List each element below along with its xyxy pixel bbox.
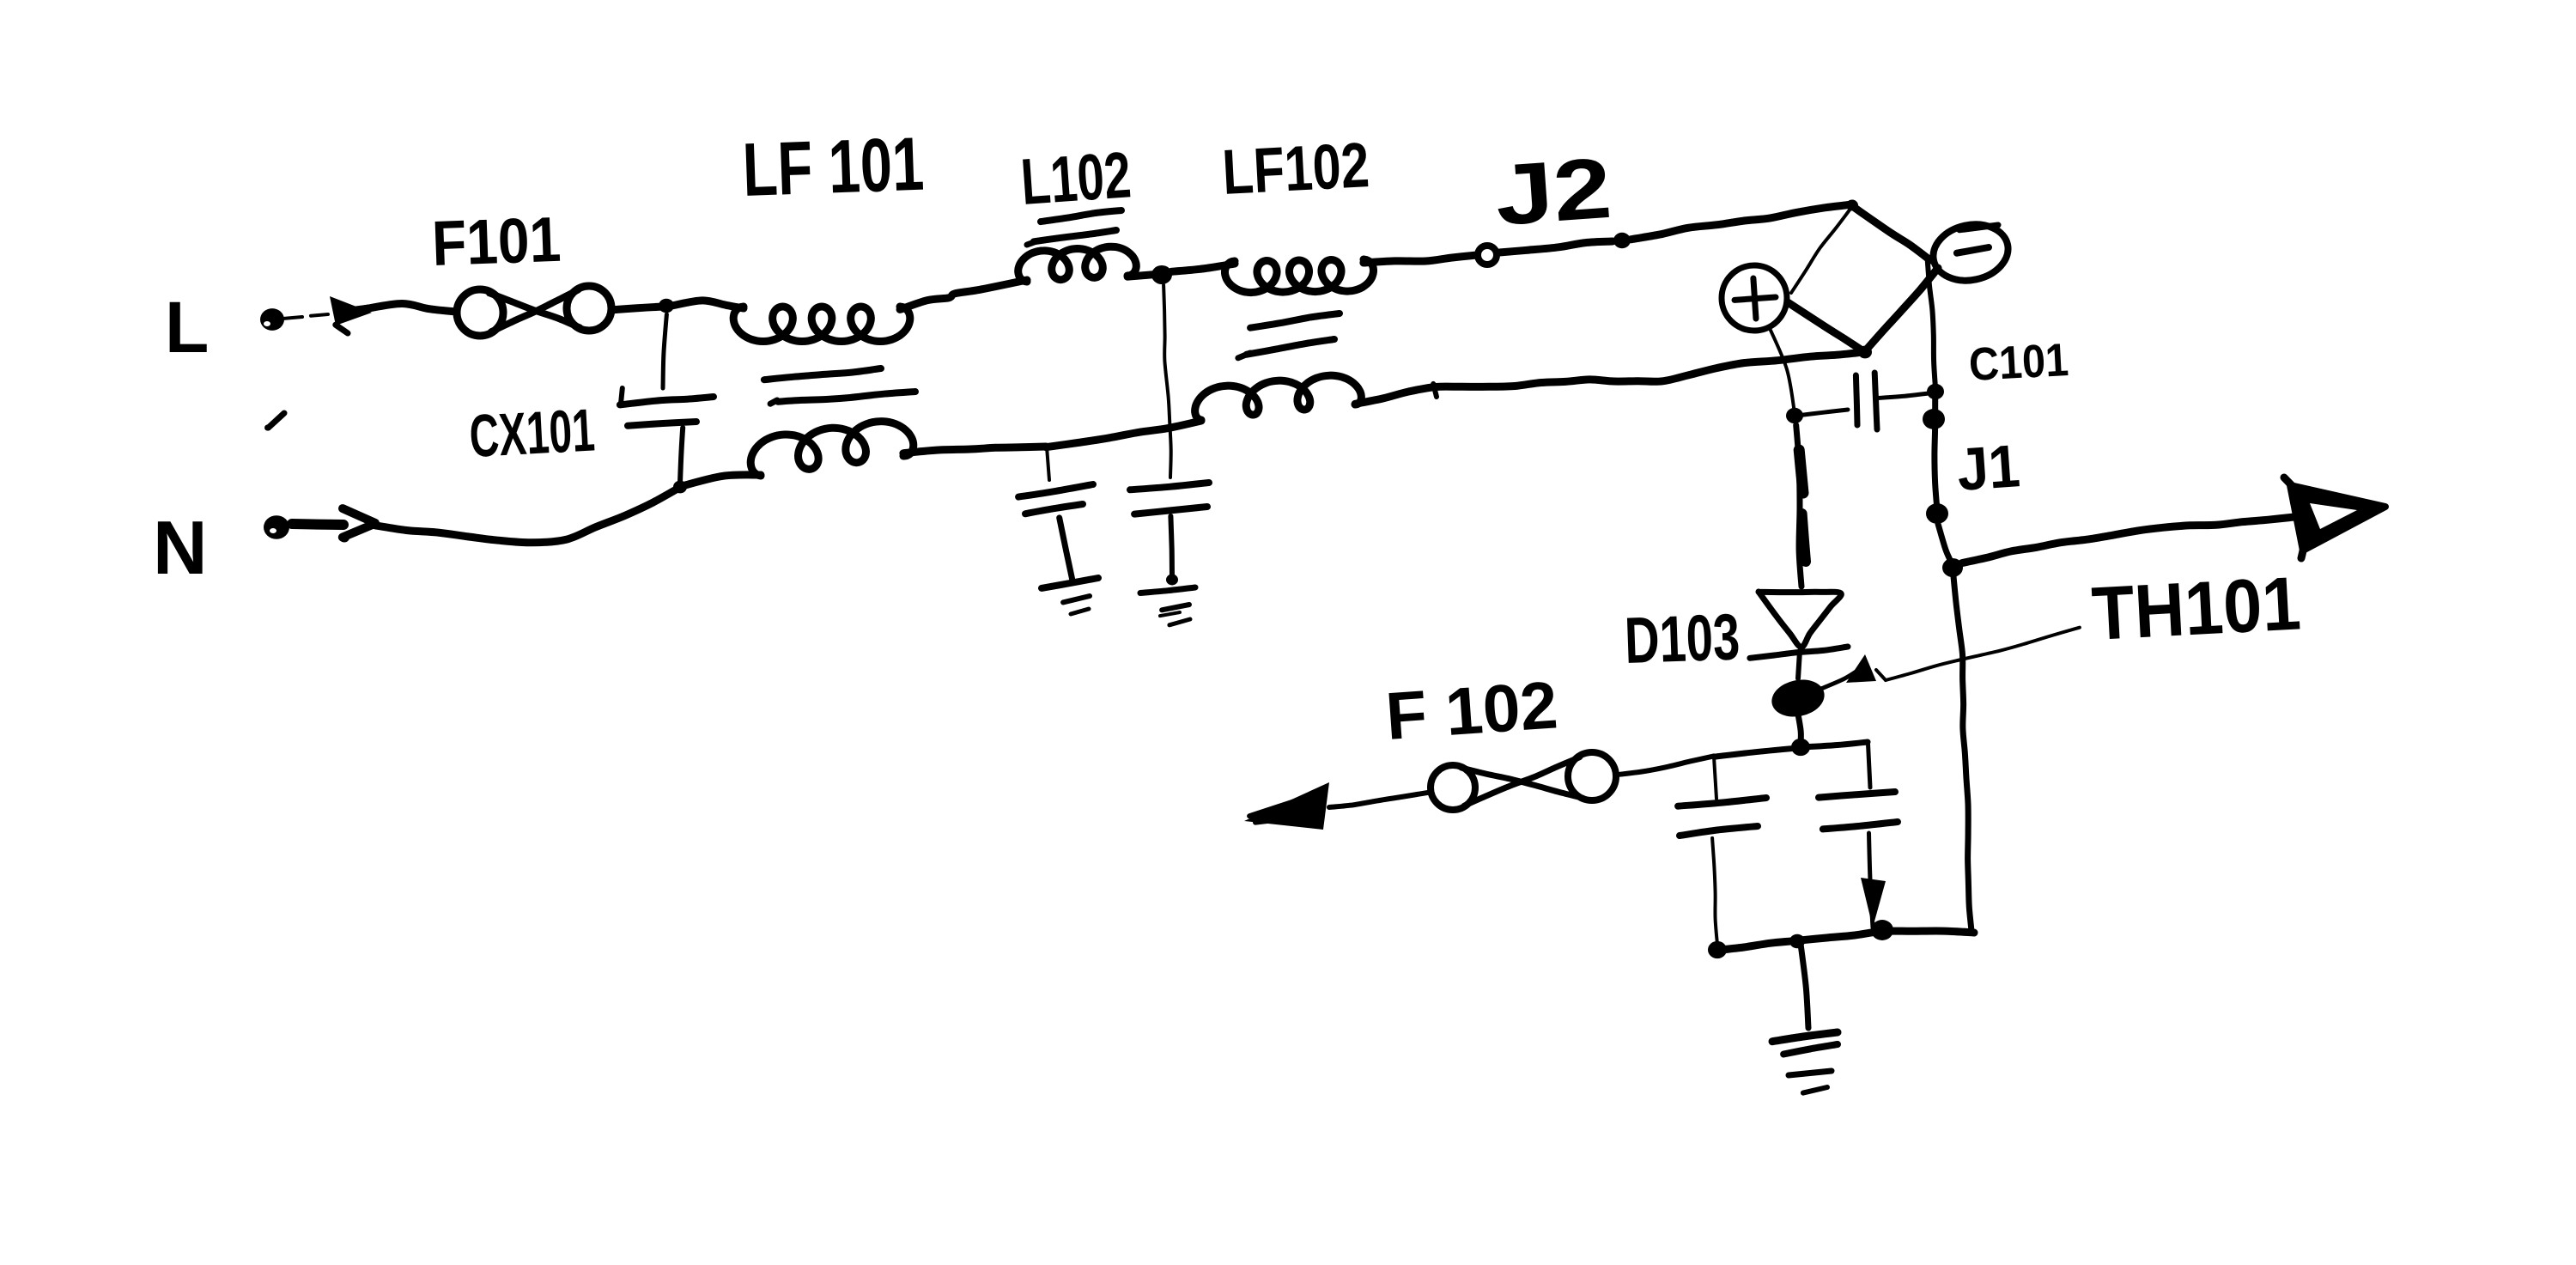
svg-text:F 102: F 102 (1383, 666, 1560, 754)
svg-text:LF 101: LF 101 (741, 121, 925, 212)
svg-text:N: N (153, 505, 208, 590)
svg-text:J2: J2 (1492, 140, 1614, 244)
svg-text:LF102: LF102 (1220, 129, 1370, 208)
svg-text:L: L (165, 287, 209, 368)
svg-text:J1: J1 (1955, 432, 2022, 503)
svg-text:C101: C101 (1967, 334, 2069, 391)
svg-text:L102: L102 (1018, 138, 1133, 219)
svg-text:CX101: CX101 (468, 396, 597, 470)
svg-text:TH101: TH101 (2090, 560, 2303, 656)
svg-text:F101: F101 (431, 204, 562, 279)
svg-text:D103: D103 (1624, 600, 1741, 678)
